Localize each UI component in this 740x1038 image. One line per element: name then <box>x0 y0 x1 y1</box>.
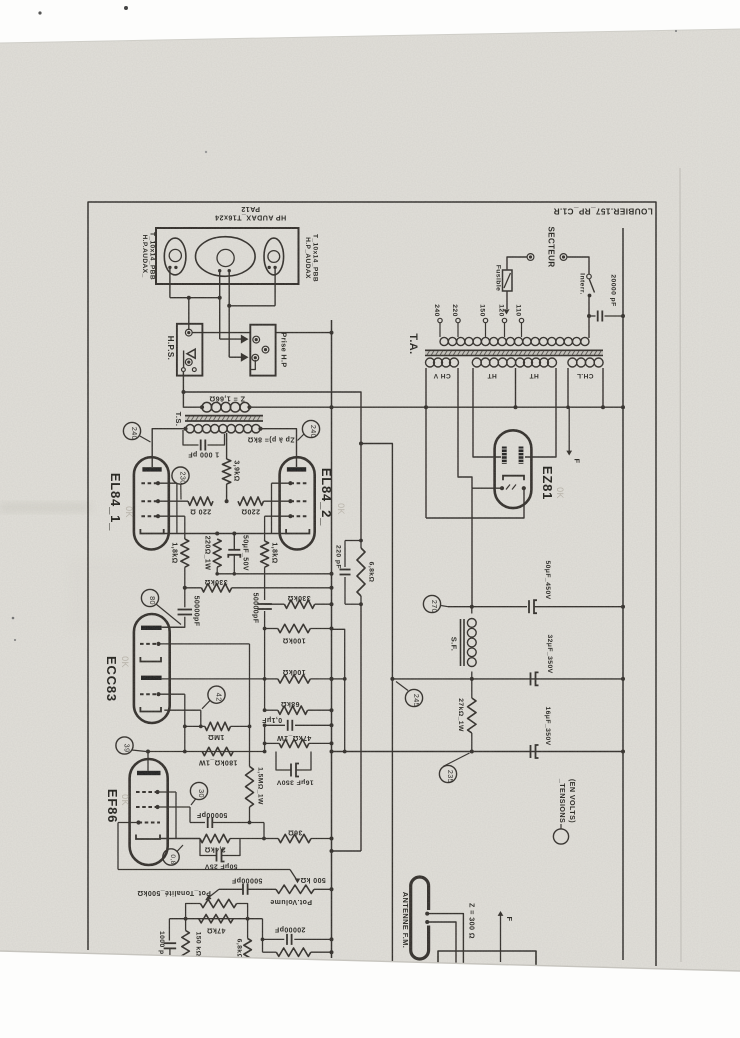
resistor 1,5M 1W <box>246 766 254 807</box>
resistor 6,8k corner <box>244 919 252 961</box>
label 50000pF no3 <box>196 811 227 818</box>
ECC83 cathode2 <box>140 707 200 726</box>
label Interr. <box>579 273 586 295</box>
wire EZ81 cathode out <box>471 488 473 607</box>
tube EL84_2 envelope <box>280 457 315 549</box>
TA secondary CH V <box>426 358 459 367</box>
paper bottom edge shade <box>0 951 740 971</box>
ECC83 grid2 <box>140 692 185 751</box>
resistor 47k 1W <box>265 739 334 747</box>
voltage circle 42 <box>202 686 225 709</box>
TS core <box>185 416 263 421</box>
pencil mark 0K EF86 <box>120 794 130 806</box>
capacitor 1000pF corner <box>164 919 177 959</box>
EF86 anode bar <box>137 752 161 776</box>
resistor 330k no1 <box>185 584 334 592</box>
TA core <box>425 350 603 355</box>
legend tensions text <box>558 778 577 823</box>
Prise terminal 1 <box>253 336 260 343</box>
wire tone row <box>169 917 262 921</box>
resistor 27k corner <box>263 948 334 956</box>
wire px361 to railA <box>330 849 362 853</box>
wire left speaker to bus <box>170 269 222 300</box>
EL84_2 g1 <box>265 514 307 539</box>
TS secondary coil <box>200 402 252 412</box>
wire CHV left heater return <box>424 368 524 518</box>
voltage circle 39 <box>116 737 146 754</box>
connector box Prise H.P. <box>250 325 275 376</box>
label 0,1uF <box>262 716 283 723</box>
wire TS sec to power <box>250 406 624 408</box>
capacitor 50000pF no1 <box>163 588 192 627</box>
TS primary coil <box>183 425 262 433</box>
tube EZ81 envelope <box>495 430 532 508</box>
speaker centre elliptic HP <box>196 237 256 277</box>
label 220pF <box>335 545 342 569</box>
tuner box cut <box>438 951 536 968</box>
label HT2 <box>529 372 539 379</box>
wire stub rail 678 <box>330 677 345 681</box>
junction grid node 1 <box>183 586 187 590</box>
label 500k <box>300 876 326 883</box>
white margin bottom <box>0 951 740 1038</box>
EL84_2 cathode <box>286 529 309 534</box>
wire px361 lower <box>359 539 363 851</box>
wire mains left to fuse <box>507 257 527 270</box>
wire grid1 drop <box>249 644 251 767</box>
capacitor 20000pF mains <box>587 311 625 322</box>
label 2,4k <box>204 846 225 853</box>
label 32uF 350V <box>546 634 553 673</box>
label 3,9k <box>233 460 240 481</box>
resistor 330k no2 <box>265 600 334 608</box>
choke SF coil <box>467 607 476 679</box>
wire HT1 to anode1 <box>473 368 501 457</box>
label EL84_2 <box>319 468 334 526</box>
label Pot.Volume <box>270 898 312 905</box>
label 50uF 50V <box>242 535 249 571</box>
label HT1 <box>487 372 497 379</box>
wire mains right to switch <box>567 257 589 274</box>
speaker enclosure box <box>156 228 299 284</box>
capacitor 1000pF <box>183 430 225 451</box>
label Zp a p 8k <box>247 436 294 443</box>
resistor 36R <box>264 834 334 842</box>
label 50uF 25V <box>204 863 237 870</box>
label 1000pF corner <box>158 931 165 959</box>
rail B vertical <box>622 228 624 960</box>
EL84_1 g1 <box>141 514 184 537</box>
label 16uF 350V no2 <box>544 706 551 745</box>
label 27k corner <box>284 960 303 967</box>
wire tone wiper <box>205 889 219 900</box>
label 68k <box>281 700 300 707</box>
label 47k corner <box>207 927 226 934</box>
label Pot.Tonalite <box>137 889 211 896</box>
voltage circle 270 <box>423 595 448 613</box>
ECC83 anode1 bar <box>141 626 162 630</box>
resistor 1,8k no1 <box>181 537 189 586</box>
wire 0,1uF to 47k <box>263 725 267 751</box>
label EF86 <box>105 789 120 823</box>
voltage circle 230 <box>172 467 189 500</box>
wire 1,5M to 36R node <box>250 807 265 839</box>
resistor 1M <box>183 722 252 730</box>
ECC83 anode1 wire <box>162 626 185 628</box>
label 330k no2 <box>287 594 310 601</box>
voltage circle 80 <box>141 589 181 624</box>
resistor 68k <box>263 706 334 714</box>
label 220R_1W <box>204 536 211 571</box>
wire fuse arrow to tap 120 <box>504 291 510 315</box>
wire HPS top to Prise <box>192 332 250 334</box>
resistor 1,8k no2 <box>261 540 269 601</box>
capacitor 50uF 50V <box>228 534 240 574</box>
label T.A. <box>407 333 419 354</box>
label 36R <box>288 829 303 836</box>
voltage circle 0,8 <box>163 845 183 865</box>
Prise terminal 3 <box>252 354 259 361</box>
wire HPS common down <box>183 372 200 408</box>
wire bus drop to HPS <box>187 296 191 330</box>
label 50000pF no1 <box>193 596 200 627</box>
resistor 100k no1 <box>263 624 334 632</box>
wire Prise to rail A <box>276 331 334 335</box>
label Z=1,66ohm <box>209 395 245 404</box>
pencil mark 0K ECC83 <box>120 656 130 668</box>
wire HT2 to anode2 <box>525 368 556 457</box>
switch Interr. <box>587 274 595 338</box>
label ANTENNE FM <box>401 892 410 949</box>
label EL84_1 <box>108 473 123 531</box>
EZ81 heater pins <box>500 485 526 491</box>
EZ81 cathode <box>503 476 524 481</box>
page edge shadow right <box>680 40 700 962</box>
label Prise H.P <box>280 332 289 367</box>
EL84_1 anode bar <box>142 467 161 471</box>
parallel 220pF 6,8k bracket <box>345 541 361 605</box>
voltage circle 235 <box>439 753 469 783</box>
resistor 27k 1W <box>468 679 476 752</box>
scan specks <box>12 6 677 641</box>
tube EF86 envelope <box>130 759 168 865</box>
capacitor 0,1uF <box>263 720 334 731</box>
resistor 100k no2 <box>263 675 334 683</box>
EL84_2 g2 <box>264 499 308 503</box>
label ECC83 <box>104 656 119 702</box>
label 330k no1 <box>204 578 227 585</box>
wire CHL left <box>566 368 570 409</box>
label 1,8k no2 <box>271 542 278 563</box>
resistor 6,8k screen <box>357 548 365 596</box>
wire row 235 <box>330 750 626 754</box>
mains terminal left <box>527 254 534 261</box>
pencil mark 0K EL84_2 <box>336 503 346 515</box>
label 1000pF <box>188 451 220 458</box>
label T.S. <box>174 412 183 427</box>
label H.P.S. <box>166 336 175 361</box>
label 1,5M 1W <box>257 767 264 805</box>
EZ81 plate bars <box>502 447 524 464</box>
label F chassis <box>573 459 582 464</box>
wire stub 344 top <box>332 629 347 753</box>
voltage circle 245 <box>396 682 423 708</box>
label SECTEUR <box>547 226 556 267</box>
scan streak <box>0 503 190 630</box>
EL84_1 g3 <box>141 481 177 533</box>
wire feedback to rail C <box>361 444 392 966</box>
resistor 47k corner <box>199 915 234 923</box>
label HP.AUDAX right <box>304 234 319 282</box>
junction cathode 220W <box>215 532 219 536</box>
legend tensions circle <box>553 824 568 844</box>
arrow F antenna <box>498 911 514 962</box>
wire g1 to volume wiper <box>118 870 300 884</box>
arrow F chassis <box>566 407 572 455</box>
label 16uF 350V no1 <box>276 779 313 786</box>
EF86 cathode <box>136 835 200 840</box>
speaker left oval HP <box>164 238 186 275</box>
capacitor 220pF <box>340 570 351 575</box>
tube ECC83 envelope <box>134 614 170 723</box>
speaker right oval HP <box>264 238 284 275</box>
EF86 g3 <box>136 790 176 839</box>
wire antenna upper <box>427 914 463 966</box>
potentiometer tonalite 500k <box>186 899 248 918</box>
tube EL84_1 envelope <box>134 457 169 549</box>
HPS terminal top <box>185 329 192 336</box>
TA secondary HT1 <box>472 358 515 367</box>
rail A vertical <box>331 320 333 958</box>
wire TS centre tap <box>226 433 228 459</box>
TA primary taps <box>433 304 524 337</box>
capacitor 20000pF <box>261 919 334 953</box>
wire arrow into Prise 1 <box>220 335 249 344</box>
wire right speaker to bus <box>227 269 275 308</box>
wire TS primary left to EL84_1 anode <box>152 429 185 467</box>
voltage circle 240 left <box>123 422 150 442</box>
EF86 g1 <box>118 820 160 869</box>
label 100k no1 <box>282 637 305 644</box>
label 27k 1W <box>457 698 464 732</box>
capacitor 50uF 450V <box>529 600 625 613</box>
TA secondary CH L <box>568 358 603 367</box>
wire centre speaker left drop <box>219 272 221 336</box>
junction cathode 50uF <box>232 532 236 536</box>
label S.F. <box>450 637 459 652</box>
potentiometer volume 500k <box>276 885 334 893</box>
wire EF86 anode row <box>146 750 267 754</box>
label CH V <box>433 372 451 379</box>
EL84_2 anode bar <box>287 467 306 471</box>
ECC83 anode2 bar <box>141 676 162 680</box>
HPS switch symbol <box>182 349 197 371</box>
resistor 220R no2 <box>238 497 264 505</box>
capacitor 16uF 350V no2 <box>531 745 539 758</box>
frame border <box>88 202 656 966</box>
junction rail A on 407 <box>330 405 334 409</box>
mains terminal right <box>560 254 567 261</box>
switch box H.P.S. <box>177 324 203 376</box>
TA secondary HT2 <box>516 358 557 367</box>
label Fusible <box>495 265 502 292</box>
resistor 180k 1W <box>202 747 233 755</box>
wire antenna lower <box>427 922 456 966</box>
label 150k <box>195 932 202 957</box>
EL84_2 g3 <box>272 481 308 533</box>
label 220R no2 <box>241 508 260 515</box>
white margin top <box>0 0 740 43</box>
antenna FM dipole <box>411 877 432 959</box>
TA primary coil <box>440 337 589 345</box>
label 20000pF mains <box>610 274 617 306</box>
resistor 3,9k <box>222 459 230 484</box>
label 50000pF no2 <box>252 593 259 624</box>
wire HT centre tap <box>514 368 518 409</box>
wire speaker feedback <box>182 390 362 444</box>
label 180k 1W <box>199 759 238 766</box>
resistor 2,4k <box>200 834 266 842</box>
paper top edge shade <box>0 29 740 43</box>
paper grain texture <box>0 0 1 1</box>
pencil mark 0K EL84_1 <box>124 506 134 518</box>
label HP.AUDAX left <box>141 232 156 280</box>
resistor 220R no1 <box>188 497 213 505</box>
resistor 150k <box>182 919 190 958</box>
wire centre speaker right drop <box>228 272 230 354</box>
label 6,8k screen <box>368 562 375 583</box>
wire 3,9k to screens <box>225 484 229 503</box>
wire CHL right <box>601 368 605 409</box>
junction feedback T <box>359 442 363 446</box>
Prise terminal 3 stub <box>250 360 255 370</box>
voltage circle 240 right <box>298 420 320 440</box>
EL84_1 cathode <box>140 529 286 534</box>
label 1M <box>208 733 225 740</box>
wire arrow into Prise 3 <box>229 353 248 362</box>
pencil mark 0K EZ81 <box>555 487 565 499</box>
capacitor 50000pF no4 <box>219 884 276 895</box>
label CH.L <box>577 372 594 379</box>
label 50uF 450V <box>544 560 551 599</box>
ECC83 grid1 <box>140 642 250 646</box>
resistor 220R_1W <box>213 539 221 574</box>
label HP AUDAX T16x24 PA12 <box>215 205 287 223</box>
wire TS primary right to EL84_2 anode <box>261 429 297 467</box>
capacitor 50000pF no2 <box>257 604 272 710</box>
voltage circle 30 <box>190 782 207 805</box>
junction 407 rail B <box>621 405 625 409</box>
wire CHV right heater <box>458 368 500 488</box>
HPS terminal mid <box>185 359 192 366</box>
wire cathode return <box>215 572 333 576</box>
label EZ81 <box>540 466 555 500</box>
capacitor 50uF 25V <box>200 839 240 862</box>
EL84_1 g2 <box>141 499 188 503</box>
ECC83 cathode1 <box>140 657 161 662</box>
label 100k no2 <box>282 668 305 675</box>
label 20000pF <box>274 926 305 933</box>
label 47k 1W <box>277 734 312 741</box>
Prise terminal 2 <box>262 346 269 353</box>
fuse Fusible <box>503 270 513 291</box>
title LOUBIER.157.RP.C1.R <box>553 207 653 216</box>
label Z=300 <box>468 903 477 939</box>
wire row 245 <box>390 677 625 681</box>
ECC83 anode2 wire <box>162 678 265 680</box>
wire row 270 <box>448 605 527 609</box>
EF86 g2 <box>136 805 190 823</box>
capacitor 50000pF no3 <box>190 817 264 828</box>
label 6,8k corner <box>236 939 243 960</box>
choke SF core <box>461 619 465 666</box>
capacitor 16uF 350V no1 <box>276 752 311 777</box>
label 1,8k no1 <box>171 542 178 563</box>
wire px361 down <box>360 444 362 541</box>
capacitor 32uF 350V <box>531 672 539 685</box>
label 220R no1 <box>190 508 211 515</box>
label 50000pF no4 <box>231 876 262 883</box>
